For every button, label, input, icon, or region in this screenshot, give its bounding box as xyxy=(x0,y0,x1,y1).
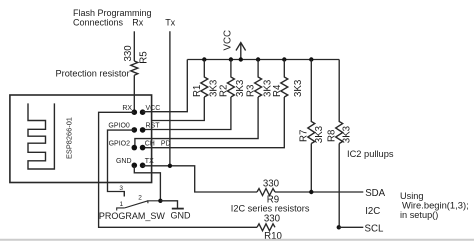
wire Tx vertical xyxy=(169,31,171,166)
svg-text:3K3: 3K3 xyxy=(293,80,304,97)
svg-text:PD: PD xyxy=(161,140,171,147)
svg-text:2: 2 xyxy=(138,194,142,201)
svg-text:ESP8266-01: ESP8266-01 xyxy=(65,117,74,159)
switch pin3 terminal xyxy=(108,192,125,197)
wire R4 to CH_PD xyxy=(143,97,284,148)
node rail-R7 xyxy=(309,57,313,61)
wire R1 to GPIO0 net xyxy=(152,97,205,121)
svg-text:PROGRAM_SW: PROGRAM_SW xyxy=(99,211,166,221)
svg-text:R5: R5 xyxy=(138,51,149,63)
svg-text:GPIO2: GPIO2 xyxy=(109,140,131,147)
VCC symbol arrow xyxy=(236,43,246,60)
svg-text:R7: R7 xyxy=(299,130,310,142)
pin RX xyxy=(132,109,138,115)
resistor R9 xyxy=(257,189,275,196)
wire R2 to RST xyxy=(143,97,231,130)
title text Flash Programming Connections xyxy=(73,8,152,28)
pin TX xyxy=(140,163,146,169)
resistor R5 xyxy=(131,61,138,75)
node rail-R1 xyxy=(202,57,206,61)
resistor R3 xyxy=(255,60,262,98)
annotation Using Wire.begin xyxy=(400,191,469,220)
svg-text:Tx: Tx xyxy=(165,18,175,28)
svg-text:Flash Programming: Flash Programming xyxy=(73,8,152,18)
svg-text:RX: RX xyxy=(122,105,132,112)
module box ESP8266-01 xyxy=(10,95,152,183)
resistor R7 xyxy=(308,60,315,144)
ground symbol xyxy=(160,201,191,221)
pin GPIO0 xyxy=(132,127,138,133)
svg-text:1: 1 xyxy=(119,201,123,208)
svg-text:GND: GND xyxy=(116,158,132,165)
node rail-R4 xyxy=(282,57,286,61)
svg-text:IC2 pullups: IC2 pullups xyxy=(347,149,394,159)
svg-text:R2: R2 xyxy=(218,85,229,97)
wire VCC pin to rail xyxy=(143,60,188,112)
svg-text:R8: R8 xyxy=(327,130,338,142)
svg-text:SDA: SDA xyxy=(365,188,385,199)
node switch-GND junction xyxy=(158,199,162,203)
switch PROGRAM_SW xyxy=(99,185,166,221)
svg-text:Rx: Rx xyxy=(132,18,143,28)
resistor R2 xyxy=(227,60,234,98)
svg-text:VCC: VCC xyxy=(146,105,161,112)
node SDA-R7 junction xyxy=(309,190,313,194)
switch lever xyxy=(125,201,148,208)
wire R3 to GPIO2 xyxy=(135,97,258,148)
wire TX to SDA xyxy=(143,166,257,192)
svg-text:GND: GND xyxy=(171,211,192,221)
svg-text:Connections: Connections xyxy=(73,18,124,28)
resistor R4 xyxy=(281,60,288,98)
resistor R1 xyxy=(201,60,208,98)
wire R9 to SDA xyxy=(275,191,363,193)
svg-text:R1: R1 xyxy=(192,85,203,97)
svg-text:330: 330 xyxy=(123,45,134,62)
svg-text:in setup(): in setup() xyxy=(400,210,438,220)
pin VCC xyxy=(140,109,146,115)
node rail-R2 xyxy=(229,57,233,61)
svg-text:R3: R3 xyxy=(246,85,257,97)
svg-text:3K3: 3K3 xyxy=(342,126,353,143)
wire GND pin to switch node xyxy=(134,166,160,201)
svg-text:TX: TX xyxy=(145,158,154,165)
svg-text:Wire.begin(1,3);: Wire.begin(1,3); xyxy=(402,200,469,211)
pin GPIO2 xyxy=(132,145,138,151)
wire SCL right segment xyxy=(339,226,364,228)
wire GPIO0 to switch pin3 xyxy=(108,130,135,196)
svg-text:Protection resistor: Protection resistor xyxy=(56,69,130,79)
wire Rx vertical upper xyxy=(133,31,135,61)
svg-text:330: 330 xyxy=(263,178,280,189)
power rail VCC xyxy=(187,59,339,61)
node TX-Tx junction xyxy=(168,164,172,168)
svg-text:3: 3 xyxy=(119,185,123,192)
wire RX to SCL xyxy=(99,112,257,227)
pin RST xyxy=(140,127,146,133)
svg-text:I2C: I2C xyxy=(365,206,380,217)
wire R7 to SDA xyxy=(310,144,312,193)
node SCL-R8 junction xyxy=(337,225,341,229)
pin CH_PD xyxy=(140,145,146,151)
switch pin1 terminal xyxy=(117,208,125,211)
node rail-VCC-stub xyxy=(239,57,243,61)
pin GND xyxy=(132,163,138,169)
svg-text:SCL: SCL xyxy=(365,223,384,234)
switch pin2 terminal xyxy=(148,201,161,204)
svg-text:VCC: VCC xyxy=(223,30,234,50)
svg-text:RST: RST xyxy=(146,123,161,130)
wire R8 to SCL xyxy=(338,144,340,228)
node rail-R3 xyxy=(256,57,260,61)
svg-text:GPIO0: GPIO0 xyxy=(108,123,130,130)
svg-text:I2C series resistors: I2C series resistors xyxy=(231,203,310,213)
svg-text:R4: R4 xyxy=(272,84,283,97)
antenna meander xyxy=(28,103,54,169)
resistor R8 xyxy=(336,60,343,144)
resistor R10 xyxy=(257,224,275,231)
svg-text:3K3: 3K3 xyxy=(235,80,246,97)
svg-text:CH: CH xyxy=(145,140,155,147)
svg-text:3K3: 3K3 xyxy=(314,126,325,143)
svg-text:330: 330 xyxy=(264,214,281,225)
